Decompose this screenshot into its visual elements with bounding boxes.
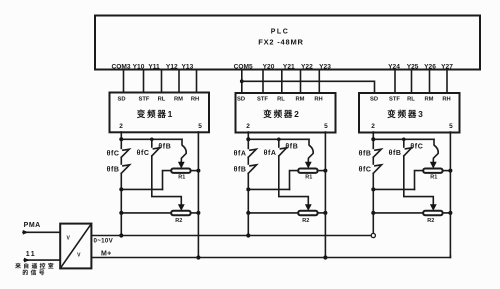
svg-text:θfA: θfA: [234, 150, 247, 157]
svg-text:θfB: θfB: [389, 150, 402, 157]
svg-text:COM5: COM5: [234, 64, 253, 71]
potentiometer R2 group1: [171, 211, 190, 224]
arrow input PMA: [23, 230, 29, 235]
switch θfA (middle) group2: [264, 139, 287, 157]
svg-text:θfB: θfB: [158, 144, 171, 151]
wire top rail group1: [121, 138, 182, 140]
wire input 11: [24, 259, 60, 261]
svg-text:Y21: Y21: [283, 64, 295, 71]
junction COM5 branch: [240, 79, 244, 83]
node terminal-2 stub inverter3: [372, 132, 374, 139]
wire PLC Y24 to inverter3: [394, 70, 396, 94]
wire PLC COM3 to inverter1: [123, 70, 125, 93]
svg-text:θfC: θfC: [410, 144, 423, 151]
svg-text:SD: SD: [237, 96, 245, 102]
svg-text:11: 11: [26, 251, 36, 258]
wire R2 right end to terminal-5 line group2: [318, 212, 326, 214]
svg-text:RH: RH: [442, 96, 450, 102]
switch θfB (wiper selector) group2: [285, 139, 313, 162]
svg-text:Y13: Y13: [182, 64, 194, 71]
junction R2 row / left line group2: [246, 211, 250, 215]
wire R2 row group3: [373, 212, 423, 214]
wire middle switch to R2 wiper group3: [404, 156, 434, 204]
wire PLC Y27 to inverter3: [446, 70, 448, 94]
svg-text:V: V: [77, 252, 81, 258]
wire R1 left end to node row group3: [415, 171, 424, 190]
inverter U3 变频器2: [236, 93, 336, 133]
svg-text:COM3: COM3: [111, 64, 130, 71]
wire PLC Y11 to inverter1: [161, 70, 163, 93]
svg-text:Y23: Y23: [319, 64, 331, 71]
junction R1/terminal-5 group3: [448, 169, 452, 173]
svg-text:SD: SD: [370, 96, 378, 102]
svg-text:Y20: Y20: [263, 64, 275, 71]
svg-text:RM: RM: [174, 96, 183, 102]
wire node row group3: [373, 188, 414, 190]
wire node row group2: [248, 188, 289, 190]
wire PLC Y22 to inverter2: [300, 70, 302, 94]
junction top rail / switch column group3: [402, 138, 406, 142]
wire R2 row group1: [121, 212, 171, 214]
svg-text:RM: RM: [295, 96, 304, 102]
svg-text:R2: R2: [302, 218, 309, 224]
svg-text:RH: RH: [191, 96, 199, 102]
wire R2 right end to terminal-5 line group3: [443, 212, 451, 214]
svg-text:PMA: PMA: [24, 222, 41, 229]
svg-text:来自遥控室: 来自遥控室: [14, 262, 56, 270]
svg-text:2: 2: [371, 123, 375, 130]
junction R2 row / left line group1: [119, 211, 123, 215]
svg-text:5: 5: [324, 123, 328, 130]
switch θfB (upper-left) group3: [359, 139, 382, 157]
wire R1 right end to terminal-5 line group3: [443, 170, 451, 172]
wire R1 right end to terminal-5 line group2: [318, 170, 326, 172]
inverter U2 变频器1: [110, 93, 210, 133]
svg-text:PLC: PLC: [271, 29, 290, 36]
svg-text:θfB: θfB: [285, 144, 298, 151]
junction terminal-2 node group2: [246, 137, 250, 141]
wiper arrow into R1 group3: [430, 162, 437, 169]
switch θfC (upper-left) group1: [107, 139, 130, 157]
svg-text:θfA: θfA: [264, 150, 277, 157]
junction left line / 0-10V bus group2: [246, 233, 250, 237]
wire PLC Y21 to inverter2: [281, 70, 283, 94]
wiper arrow into R1 group1: [178, 162, 185, 169]
inverter U4 变频器3: [359, 93, 460, 133]
wiper arrow into R2 group1: [178, 204, 185, 211]
svg-text:变频器3: 变频器3: [387, 109, 424, 119]
svg-text:θfB: θfB: [359, 150, 372, 157]
wire PLC Y10 to inverter1: [143, 70, 145, 93]
junction top rail / switch column group2: [277, 138, 281, 142]
svg-text:STF: STF: [257, 96, 268, 102]
wire PLC Y20 to inverter2: [262, 70, 264, 94]
svg-text:Y22: Y22: [301, 64, 313, 71]
svg-text:R2: R2: [175, 218, 182, 224]
svg-text:θfC: θfC: [137, 150, 150, 157]
wiper arrow into R1 group2: [305, 162, 312, 169]
wire PLC Y13 to inverter1: [196, 70, 198, 93]
svg-text:θfB: θfB: [107, 166, 120, 173]
junction R2 row / left line group3: [371, 211, 375, 215]
wire PLC Y26 to inverter3: [429, 70, 431, 94]
junction R2/terminal-5 group3: [448, 211, 452, 215]
wire 0-10V bus: [91, 235, 370, 237]
switch θfB (wiper selector) group1: [158, 139, 186, 162]
wire PLC Y25 to inverter3: [411, 70, 413, 94]
svg-text:RH: RH: [314, 96, 322, 102]
junction top rail / switch column group1: [150, 138, 154, 142]
potentiometer R1 group1: [171, 169, 190, 181]
svg-text:R1: R1: [305, 174, 312, 180]
wire left line down to 0-10V bus group2: [247, 173, 249, 235]
PLC controller box U1: [95, 16, 480, 70]
arrow input 11: [24, 258, 30, 263]
svg-text:M+: M+: [101, 250, 112, 257]
junction R2/terminal-5 group2: [323, 211, 327, 215]
V/V signal converter U5: [60, 224, 91, 269]
junction R2/terminal-5 group1: [196, 211, 200, 215]
svg-text:STF: STF: [389, 96, 400, 102]
wire M+ bus: [91, 256, 450, 258]
svg-text:θfC: θfC: [359, 166, 372, 173]
svg-text:STF: STF: [139, 96, 150, 102]
svg-text:θfB: θfB: [234, 166, 247, 173]
svg-text:2: 2: [119, 123, 123, 130]
svg-text:R1: R1: [430, 174, 437, 180]
node terminal-2 stub inverter2: [247, 132, 249, 139]
junction terminal-5 line / M+ bus group2: [323, 255, 327, 259]
junction node row / left line group1: [119, 187, 123, 191]
svg-text:5: 5: [449, 123, 453, 130]
svg-text:5: 5: [198, 123, 202, 130]
wire left line down to 0-10V bus group3: [372, 173, 374, 233]
svg-text:θfC: θfC: [107, 150, 120, 157]
potentiometer R2 group3: [423, 211, 442, 224]
node terminal-2 stub inverter1: [120, 132, 122, 139]
wire middle switch to R2 wiper group2: [279, 156, 309, 204]
wire terminal-5 line group2: [324, 132, 326, 258]
wire R1 right end to terminal-5 line group1: [191, 170, 199, 172]
switch θfB (lower-left) group1: [107, 157, 130, 173]
wire R1 left end to node row group2: [290, 171, 299, 190]
junction terminal-2 node group1: [119, 137, 123, 141]
svg-text:Y12: Y12: [166, 64, 178, 71]
junction R1/terminal-5 group1: [196, 169, 200, 173]
potentiometer R1 group2: [298, 169, 317, 181]
wire PLC Y23 to inverter2: [318, 70, 320, 94]
junction terminal-2 node group3: [371, 137, 375, 141]
wire terminal-5 line group3: [449, 132, 451, 258]
wire left line down to 0-10V bus group1: [120, 173, 122, 235]
switch θfC (wiper selector) group3: [410, 139, 438, 162]
wire R1 left end to node row group1: [163, 171, 172, 190]
svg-text:RM: RM: [424, 96, 433, 102]
wire top rail group2: [248, 138, 309, 140]
wire COM5 branch to inverter3 SD: [242, 81, 375, 93]
svg-text:Y24: Y24: [388, 64, 400, 71]
svg-text:的信号: 的信号: [22, 268, 47, 276]
wire middle switch to R2 wiper group1: [152, 156, 182, 204]
svg-text:R1: R1: [178, 174, 185, 180]
wire node row group1: [121, 188, 162, 190]
svg-text:SD: SD: [117, 96, 125, 102]
wire PLC COM5 to inverter2: [241, 70, 243, 94]
junction node row / left line group3: [371, 187, 375, 191]
wire R2 right end to terminal-5 line group1: [191, 212, 199, 214]
svg-text:RL: RL: [277, 96, 285, 102]
switch θfB (middle) group3: [389, 139, 412, 157]
wiper arrow into R2 group3: [430, 204, 437, 211]
junction R1/terminal-5 group2: [323, 169, 327, 173]
switch θfB (lower-left) group2: [234, 157, 257, 173]
wire R2 row group2: [248, 212, 298, 214]
switch θfC (middle) group1: [137, 139, 160, 157]
svg-text:R2: R2: [427, 218, 434, 224]
svg-text:RL: RL: [407, 96, 415, 102]
junction left line / 0-10V bus group1: [119, 233, 123, 237]
junction node row / left line group2: [246, 187, 250, 191]
switch θfA (upper-left) group2: [234, 139, 257, 157]
svg-text:RL: RL: [158, 96, 166, 102]
node open terminal on 0-10V bus group3: [371, 233, 375, 237]
wiper arrow into R2 group2: [305, 204, 312, 211]
wire input PMA: [23, 231, 60, 233]
svg-text:变频器2: 变频器2: [263, 109, 300, 119]
wire top rail group3: [373, 138, 434, 140]
svg-text:Y25: Y25: [407, 64, 419, 71]
wire PLC Y12 to inverter1: [178, 70, 180, 93]
svg-text:FX2 -48MR: FX2 -48MR: [258, 38, 304, 47]
potentiometer R2 group2: [298, 211, 317, 224]
svg-text:0~10V: 0~10V: [94, 237, 114, 244]
svg-text:变频器1: 变频器1: [137, 109, 174, 119]
junction terminal-5 line / M+ bus group1: [196, 255, 200, 259]
svg-text:2: 2: [246, 123, 250, 130]
wire terminal-5 line group1: [197, 132, 199, 258]
svg-text:Y11: Y11: [148, 64, 160, 71]
svg-text:V: V: [67, 236, 71, 242]
switch θfC (lower-left) group3: [359, 157, 382, 173]
potentiometer R1 group3: [423, 169, 442, 181]
